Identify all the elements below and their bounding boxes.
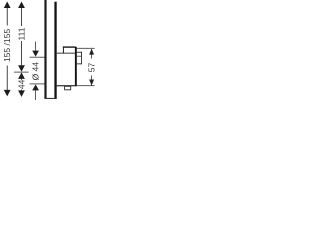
- wire bottom connector: [44, 98, 56, 99]
- wire extension line D44 bottom: [30, 83, 45, 86]
- svg-text:Ø 44: Ø 44: [31, 62, 41, 81]
- wire top extension line: [77, 47, 95, 50]
- arrow down 155: [4, 90, 11, 97]
- wire bottom extension line: [77, 84, 95, 87]
- arrow up 155: [4, 2, 11, 9]
- wall: [44, 0, 46, 99]
- arrow up 57: [89, 49, 94, 55]
- dimension D44 upper line: [34, 42, 37, 51]
- node paddle top edge: [77, 51, 82, 54]
- node paddle bottom: [77, 62, 82, 65]
- arrow down 57: [89, 80, 94, 86]
- arrow up 111: [18, 2, 25, 9]
- svg-text:111: 111: [17, 27, 27, 40]
- wire extension line D44 top: [30, 56, 45, 59]
- arrow down D44 top: [32, 51, 39, 57]
- dimension D44 lower line: [34, 90, 37, 100]
- node paddle seam: [77, 55, 82, 58]
- dimension 111 line: [20, 7, 23, 26]
- dimension 44 arrows: [18, 72, 25, 79]
- node tab top edge: [63, 46, 76, 47]
- node sleeve top edge: [57, 52, 75, 55]
- wire extension line mid: [14, 71, 29, 74]
- arrow down 44: [18, 90, 25, 97]
- node handle front face: [75, 47, 77, 86]
- svg-text:57: 57: [86, 63, 96, 73]
- dimension 44 line: [20, 79, 23, 80]
- dimension 155/155 line: [6, 7, 9, 26]
- plate (155 plate side view): [54, 2, 56, 99]
- svg-text:155 /155: 155 /155: [2, 29, 12, 62]
- arrow down 111: [18, 65, 25, 72]
- dimension 57 line: [90, 49, 93, 59]
- node fixture bottom edge: [57, 85, 77, 86]
- svg-text:44: 44: [17, 79, 27, 89]
- node tab left edge: [63, 46, 64, 53]
- node bottom notch: [65, 86, 71, 90]
- arrow up D44 bottom: [32, 84, 39, 90]
- node paddle front: [80, 52, 83, 65]
